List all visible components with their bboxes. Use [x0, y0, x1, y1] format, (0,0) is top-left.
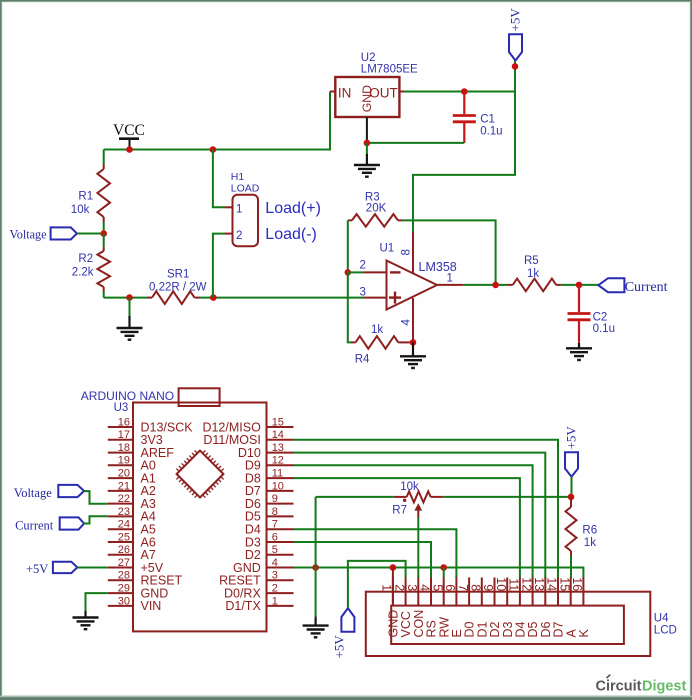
- svg-text:10: 10: [272, 480, 284, 492]
- wire H1 pin1 branch: [213, 150, 225, 208]
- svg-text:SR1: SR1: [167, 269, 189, 281]
- svg-text:8: 8: [469, 584, 483, 591]
- svg-text:4: 4: [418, 584, 432, 591]
- svg-text:14: 14: [545, 577, 559, 591]
- pin 4 stub (right, GND): [267, 567, 294, 569]
- potentiometer R7 10k: [316, 496, 394, 498]
- svg-text:C1: C1: [480, 114, 495, 126]
- svg-text:IN: IN: [338, 85, 352, 100]
- pin 20 stub (left, A1): [108, 477, 133, 479]
- connector H1 LOAD: [233, 195, 259, 247]
- svg-text:20: 20: [118, 468, 130, 480]
- pin 26 stub (left, A7): [108, 554, 133, 556]
- pin 27 stub (left, +5V): [108, 567, 133, 569]
- pin 30 stub (left, VIN): [108, 605, 133, 607]
- svg-text:0.1u: 0.1u: [480, 126, 502, 138]
- junction dot GND rail / LCD RW: [440, 564, 447, 571]
- svg-text:12: 12: [519, 577, 533, 591]
- svg-text:+5V: +5V: [564, 426, 579, 450]
- svg-text:0.1u: 0.1u: [593, 323, 615, 335]
- wire LCD RW to GND rail: [443, 568, 445, 579]
- LCD pin 13 D6: [544, 578, 546, 606]
- junction dot +5V pin: [512, 63, 519, 70]
- wire +5V to pin 27: [77, 567, 108, 569]
- pin 2 stub (right, D0/RX): [267, 592, 294, 594]
- svg-text:Current: Current: [15, 518, 54, 532]
- svg-text:18: 18: [118, 442, 130, 454]
- svg-text:ARDUINO NANO: ARDUINO NANO: [81, 389, 174, 403]
- ground symbol under potentiometer leg: [315, 617, 317, 619]
- junction dot output feedback: [492, 282, 499, 289]
- junction dot ground branch: [126, 294, 133, 301]
- capacitor C1: [463, 92, 465, 115]
- svg-text:6: 6: [443, 584, 457, 591]
- LCD U4 inner box: [391, 606, 624, 644]
- svg-text:2.2k: 2.2k: [72, 267, 94, 279]
- LCD pin 14 D7: [557, 578, 559, 606]
- wire H1 pin2 branch: [213, 234, 225, 298]
- svg-text:C2: C2: [593, 312, 608, 324]
- svg-text:4: 4: [272, 557, 278, 569]
- connector Current (to A4): [60, 517, 84, 529]
- capacitor C2: [578, 285, 580, 312]
- wire D10 (pin13) to LCD D6: [294, 453, 546, 578]
- wire D9 (pin12) to LCD D5: [294, 465, 533, 578]
- svg-text:27: 27: [118, 557, 130, 569]
- svg-text:16: 16: [570, 577, 584, 591]
- wire +5V down to op-amp power: [514, 61, 516, 67]
- wire op-amp output pin 1: [437, 284, 463, 286]
- svg-text:Load(-): Load(-): [265, 226, 317, 243]
- wire D3 (pin6) to LCD RS: [294, 542, 432, 578]
- resistor R6 1k: [570, 497, 572, 507]
- junction dot VCC: [126, 146, 133, 153]
- ground symbol under C2: [578, 341, 580, 343]
- svg-text:5: 5: [430, 584, 444, 591]
- svg-text:R2: R2: [78, 253, 93, 265]
- R7 origin dot: [403, 499, 406, 502]
- pin 8 stub (right, D5): [267, 515, 294, 517]
- svg-text:17: 17: [118, 429, 130, 441]
- svg-text:10: 10: [494, 577, 508, 591]
- ground symbol under U2: [366, 143, 368, 154]
- svg-text:4: 4: [401, 319, 413, 326]
- svg-text:29: 29: [118, 583, 130, 595]
- pin 18 stub (left, AREF): [108, 452, 133, 454]
- junction dot R4 / pin4 ground: [410, 339, 417, 346]
- resistor R4 1k: [351, 341, 356, 343]
- svg-text:Digest: Digest: [642, 679, 686, 695]
- svg-text:13: 13: [532, 577, 546, 591]
- resistor R3 feedback 20K: [348, 219, 352, 221]
- junction dot Voltage node: [100, 230, 107, 237]
- LCD pin 3 CON: [417, 578, 419, 606]
- pin 16 stub (left, D13/SCK): [108, 426, 133, 428]
- LCD pin 12 D5: [532, 578, 534, 606]
- wire R3 right to output node: [402, 220, 495, 285]
- wire pin 3 stub (non-inverting input): [363, 297, 387, 299]
- svg-text:2: 2: [272, 583, 278, 595]
- svg-text:D1/TX: D1/TX: [225, 599, 261, 613]
- junction dot SR1 right: [210, 294, 217, 301]
- wire pin2 node down to R4: [348, 272, 351, 342]
- svg-text:28: 28: [118, 570, 130, 582]
- svg-text:U3: U3: [114, 402, 129, 414]
- svg-text:30: 30: [118, 595, 130, 607]
- pin 12 stub (right, D9): [267, 464, 294, 466]
- pin 14 stub (right, D11/MOSI): [267, 439, 294, 441]
- wire Current to pin 23: [84, 516, 108, 523]
- svg-text:7: 7: [456, 584, 470, 591]
- wire +5V to R6 node: [571, 477, 573, 497]
- svg-text:U1: U1: [380, 243, 395, 255]
- pin 23 stub (left, A4): [108, 515, 133, 517]
- pin 17 stub (left, 3V3): [108, 439, 133, 441]
- junction dot pin 2 node: [345, 269, 352, 276]
- wire Voltage to pin 22: [84, 491, 108, 504]
- junction dot +5V / R7 / R6: [568, 494, 575, 501]
- svg-text:+5V: +5V: [508, 8, 523, 32]
- junction dot C1 top: [461, 88, 468, 95]
- pin 24 stub (left, A5): [108, 528, 133, 530]
- pin 5 stub (right, D2): [267, 554, 294, 556]
- resistor R1: [103, 150, 105, 165]
- svg-text:11: 11: [507, 578, 521, 591]
- svg-text:LCD: LCD: [654, 625, 677, 637]
- svg-text:R6: R6: [582, 525, 597, 537]
- wire U2 OUT to +5V: [399, 91, 404, 93]
- ground symbol pin 29: [85, 610, 87, 612]
- pin 25 stub (left, A6): [108, 541, 133, 543]
- svg-text:0.22R / 2W: 0.22R / 2W: [149, 282, 207, 294]
- svg-text:22: 22: [118, 493, 130, 505]
- LCD pin 5 RW: [443, 578, 445, 606]
- pin 21 stub (left, A2): [108, 490, 133, 492]
- wire bottom rail to op-amp pin 3: [104, 297, 147, 299]
- svg-text:2: 2: [392, 584, 406, 591]
- svg-text:1k: 1k: [371, 324, 383, 336]
- Arduino QFP chip symbol: [177, 451, 224, 498]
- svg-text:1k: 1k: [527, 268, 539, 280]
- svg-text:8: 8: [401, 249, 413, 255]
- ground symbol under op-amp: [412, 342, 414, 346]
- wire pin 2 (inverting input): [348, 271, 363, 273]
- pin 28 stub (left, RESET): [108, 579, 133, 581]
- svg-text:13: 13: [272, 442, 284, 454]
- pin 29 stub (left, GND): [108, 592, 133, 594]
- LCD pin 7 D0: [468, 578, 470, 606]
- svg-text:15: 15: [557, 577, 571, 591]
- LCD pin 11 D4: [519, 578, 521, 606]
- LCD pin 9 D2: [494, 578, 496, 606]
- pin 19 stub (left, A0): [108, 464, 133, 466]
- svg-text:+5V: +5V: [26, 562, 48, 576]
- wire pin 29 GND to ground: [86, 593, 108, 611]
- svg-text:3: 3: [405, 584, 419, 591]
- Arduino top connector box: [179, 388, 220, 406]
- wire GND rail (pin4) to LCD K: [294, 568, 584, 579]
- svg-text:25: 25: [118, 531, 130, 543]
- svg-text:10k: 10k: [71, 204, 90, 216]
- op-amp U1 LM358: [387, 261, 438, 310]
- junction dot U2 ground: [364, 140, 371, 147]
- wire D4 (pin7) to LCD E: [294, 529, 457, 578]
- svg-text:1k: 1k: [584, 537, 596, 549]
- pin 9 stub (right, D6): [267, 503, 294, 505]
- pin 3 stub (right, RESET): [267, 579, 294, 581]
- svg-text:9: 9: [272, 493, 278, 505]
- wire potentiometer left to ground: [315, 497, 317, 617]
- svg-text:1: 1: [272, 595, 278, 607]
- svg-text:26: 26: [118, 544, 130, 556]
- ground symbol under R2 rail: [129, 298, 131, 316]
- resistor SR1 shunt: [147, 297, 152, 299]
- svg-text:14: 14: [272, 429, 284, 441]
- svg-text:2: 2: [236, 230, 242, 242]
- svg-text:12: 12: [272, 455, 284, 467]
- svg-text:VCC: VCC: [113, 122, 145, 139]
- svg-text:1: 1: [447, 273, 453, 285]
- svg-text:5: 5: [272, 544, 278, 556]
- svg-text:2: 2: [360, 260, 366, 272]
- svg-text:24: 24: [118, 519, 130, 531]
- VCC supply symbol: [119, 137, 139, 140]
- pin 11 stub (right, D8): [267, 477, 294, 479]
- svg-text:21: 21: [118, 480, 130, 492]
- svg-text:U2: U2: [361, 52, 376, 64]
- resistor R5 1k: [508, 284, 513, 286]
- svg-text:Voltage: Voltage: [10, 227, 47, 241]
- svg-text:7: 7: [272, 519, 278, 531]
- svg-text:+5V: +5V: [332, 635, 347, 659]
- wire +5V to LCD VCC: [348, 561, 406, 608]
- wire U2 GND to ground rail: [366, 117, 368, 143]
- junction dot C2 node: [576, 282, 583, 289]
- pin 7 stub (right, D4): [267, 528, 294, 530]
- svg-text:10k: 10k: [400, 481, 419, 493]
- wire D8 (pin11) to LCD D4: [294, 478, 520, 578]
- junction dot GND rail / LCD GND: [390, 564, 397, 571]
- LCD U4 outer box: [366, 592, 651, 656]
- resistor R2: [103, 234, 105, 248]
- svg-text:6: 6: [272, 531, 278, 543]
- pin 13 stub (right, D10): [267, 452, 294, 454]
- svg-text:R4: R4: [355, 354, 370, 366]
- pin 15 stub (right, D12/MISO): [267, 426, 294, 428]
- connector Voltage (input): [51, 227, 77, 239]
- Arduino Nano U3 body: [133, 403, 267, 632]
- junction dot GND rail / potentiometer ground: [312, 564, 319, 571]
- svg-text:3: 3: [272, 570, 278, 582]
- +5V supply symbol (right): [565, 452, 578, 477]
- wire D11/MOSI (pin14) to LCD D7: [294, 440, 559, 578]
- junction dot H1 branch: [210, 146, 217, 153]
- svg-text:H1: H1: [231, 171, 245, 183]
- pin 22 stub (left, A3): [108, 503, 133, 505]
- svg-text:23: 23: [118, 506, 130, 518]
- svg-text:VIN: VIN: [141, 599, 162, 613]
- LCD pin 10 D3: [506, 578, 508, 606]
- svg-text:U4: U4: [654, 613, 669, 625]
- svg-text:11: 11: [272, 468, 283, 480]
- LCD pin 15 A: [570, 578, 572, 606]
- wire R3 left to pin 2 node: [347, 220, 349, 272]
- svg-text:R7: R7: [392, 505, 407, 517]
- svg-text:Current: Current: [625, 280, 668, 295]
- svg-text:16: 16: [118, 416, 130, 428]
- wire op-amp pin 4 to ground: [412, 298, 414, 342]
- svg-text:1: 1: [236, 204, 242, 216]
- wire LCD GND pin up to GND rail: [392, 568, 394, 606]
- connector Current (output): [598, 278, 624, 292]
- pin 1 stub (right, D1/TX): [267, 605, 294, 607]
- pin 6 stub (right, D3): [267, 541, 294, 543]
- +5V supply symbol (top): [509, 34, 522, 60]
- svg-text:20K: 20K: [366, 203, 387, 215]
- svg-text:15: 15: [272, 416, 284, 428]
- +5V supply symbol (bottom, LCD VCC): [341, 608, 354, 632]
- LCD pin 1 GND: [392, 578, 394, 606]
- svg-text:9: 9: [481, 584, 495, 591]
- connector +5V (to +5V pin): [53, 562, 77, 573]
- wire Voltage to node: [77, 233, 104, 235]
- connector Voltage (to A3): [58, 485, 84, 497]
- svg-text:R5: R5: [524, 255, 539, 267]
- wire R5 to Current connector: [561, 284, 598, 286]
- svg-text:K: K: [577, 629, 591, 638]
- svg-text:Circuit: Circuit: [596, 679, 642, 695]
- voltage regulator U2 LM7805EE: [330, 91, 335, 93]
- LCD pin 16 K: [582, 578, 584, 606]
- svg-text:19: 19: [118, 455, 130, 467]
- svg-text:LM7805EE: LM7805EE: [361, 64, 418, 76]
- LCD pin 8 D1: [481, 578, 483, 606]
- svg-text:LOAD: LOAD: [231, 182, 260, 194]
- R7 wiper arrow to LCD CON: [414, 503, 422, 510]
- svg-text:Load(+): Load(+): [265, 200, 321, 217]
- pin 10 stub (right, D7): [267, 490, 294, 492]
- LCD pin 2 VCC: [405, 578, 407, 606]
- LCD pin 4 RS: [430, 578, 432, 606]
- svg-text:Voltage: Voltage: [14, 486, 52, 500]
- svg-text:GND: GND: [360, 85, 374, 112]
- svg-text:1: 1: [380, 584, 394, 591]
- svg-text:R1: R1: [78, 191, 93, 203]
- LCD pin 6 E: [455, 578, 457, 606]
- wire VCC rail: [104, 92, 330, 150]
- svg-text:3: 3: [360, 286, 366, 298]
- svg-text:8: 8: [272, 506, 278, 518]
